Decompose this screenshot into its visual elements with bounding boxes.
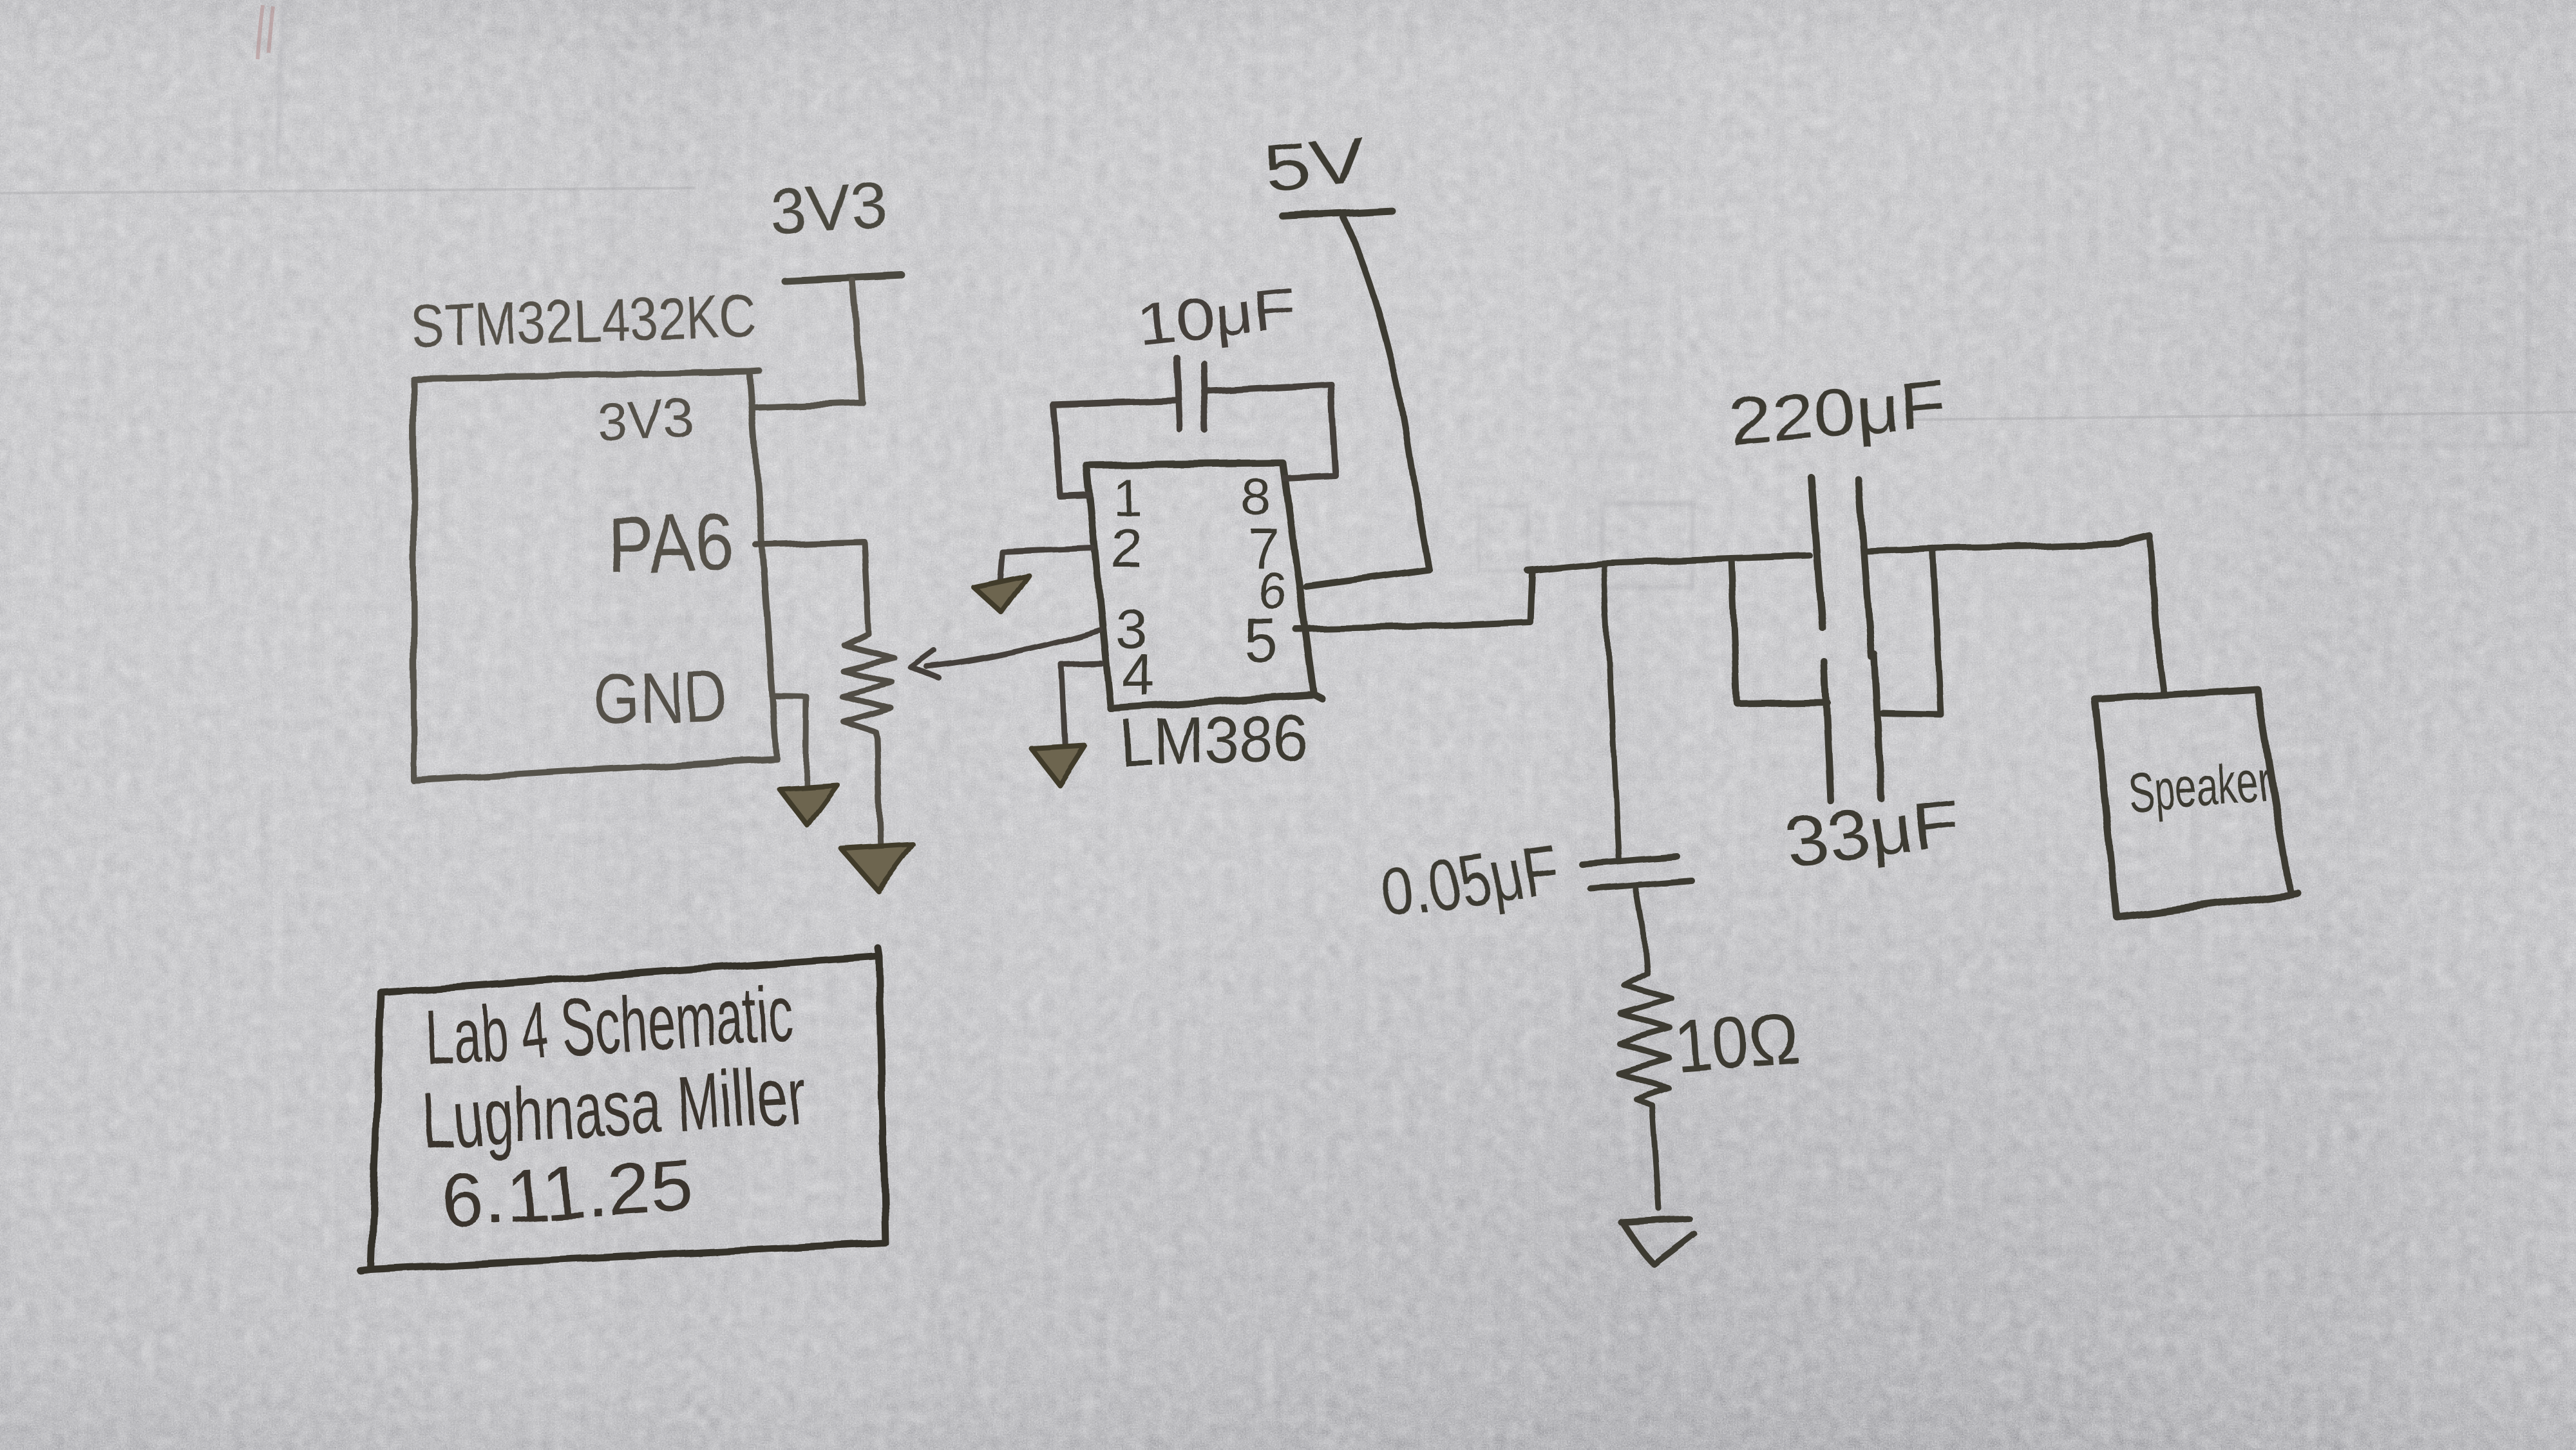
wire pin 5 output with step [1296, 572, 1532, 629]
wire pin 3 to potentiometer wiper (arrow) [927, 630, 1100, 667]
title block box [361, 948, 885, 1271]
wire speaker branch down [2120, 536, 2163, 691]
wire C1 right plate to pin 8 [1206, 384, 1336, 478]
capacitor C3 33uF left plate [1824, 662, 1831, 801]
arrowhead at potentiometer [911, 650, 940, 679]
wire 5V to pin 6 node [1343, 218, 1429, 570]
wire output rail to C2 220uF [1528, 556, 1810, 570]
wire rail to C3 33uF left plate [1732, 558, 1828, 704]
svg-text:6.11.25: 6.11.25 [439, 1142, 696, 1243]
amplifier U2 LM386 box [1087, 463, 1322, 709]
wire GND pin to ground [773, 697, 807, 791]
faint red printed mark at top edge [258, 5, 273, 59]
ground (pin 4) [1032, 746, 1084, 785]
resistor R2 10ohm [1618, 973, 1672, 1106]
wire PA6 pin to potentiometer [755, 541, 869, 634]
speaker box [2095, 689, 2298, 917]
ground (zobel, open triangle) [1622, 1219, 1694, 1265]
svg-text:3V3: 3V3 [595, 388, 695, 453]
wire C4 to R2 [1636, 890, 1647, 973]
svg-text:3V3: 3V3 [767, 168, 890, 249]
potentiometer R1 [841, 634, 894, 739]
svg-text:10Ω: 10Ω [1672, 998, 1802, 1087]
wire potentiometer to ground [877, 739, 881, 849]
MCU U1 STM32L432KC box [413, 371, 777, 781]
wire pin 2 to ground [1000, 549, 1093, 582]
wire C2 right plate to speaker branch [1867, 543, 2120, 551]
ground (below potentiometer) [841, 844, 913, 890]
svg-text:STM32L432KC: STM32L432KC [410, 281, 756, 361]
wire 3V3 bar stem [853, 281, 862, 402]
wire pin 4 to ground [1062, 664, 1101, 749]
svg-text:5V: 5V [1262, 124, 1369, 206]
power symbol 5V bar [1283, 211, 1392, 216]
capacitor C4 0.05uF bottom plate [1591, 881, 1692, 889]
svg-text:5: 5 [1243, 605, 1277, 674]
wire C3 right plate to rail [1882, 549, 1941, 715]
wire C1 left plate to pin 1 [1053, 400, 1176, 497]
ground (MCU GND) [779, 785, 837, 825]
faint ghost line across upper left [0, 188, 696, 193]
ground (pin 2) [974, 576, 1029, 613]
wire rail junction down to C4 0.05uF [1604, 563, 1618, 860]
svg-text:2: 2 [1112, 516, 1143, 580]
capacitor C4 0.05uF top plate [1582, 856, 1677, 864]
svg-text:Speaker: Speaker [2126, 749, 2274, 825]
svg-text:LM386: LM386 [1119, 700, 1308, 781]
svg-text:4: 4 [1122, 643, 1155, 708]
wire R2 to ground [1653, 1106, 1660, 1209]
capacitor C2 220uF right plate [1859, 480, 1871, 657]
capacitor C2 220uF left plate [1811, 477, 1823, 628]
capacitor C3 33uF right plate [1874, 654, 1882, 799]
capacitor C1 10uF right plate [1204, 363, 1206, 431]
svg-text:GND: GND [592, 655, 728, 740]
power symbol 3V3 bar [785, 276, 902, 281]
wire pin 6 stub [1306, 570, 1429, 587]
svg-text:PA6: PA6 [606, 496, 734, 590]
capacitor C1 10uF left plate [1177, 358, 1180, 430]
wire 3V3 pin to stem [753, 403, 863, 408]
